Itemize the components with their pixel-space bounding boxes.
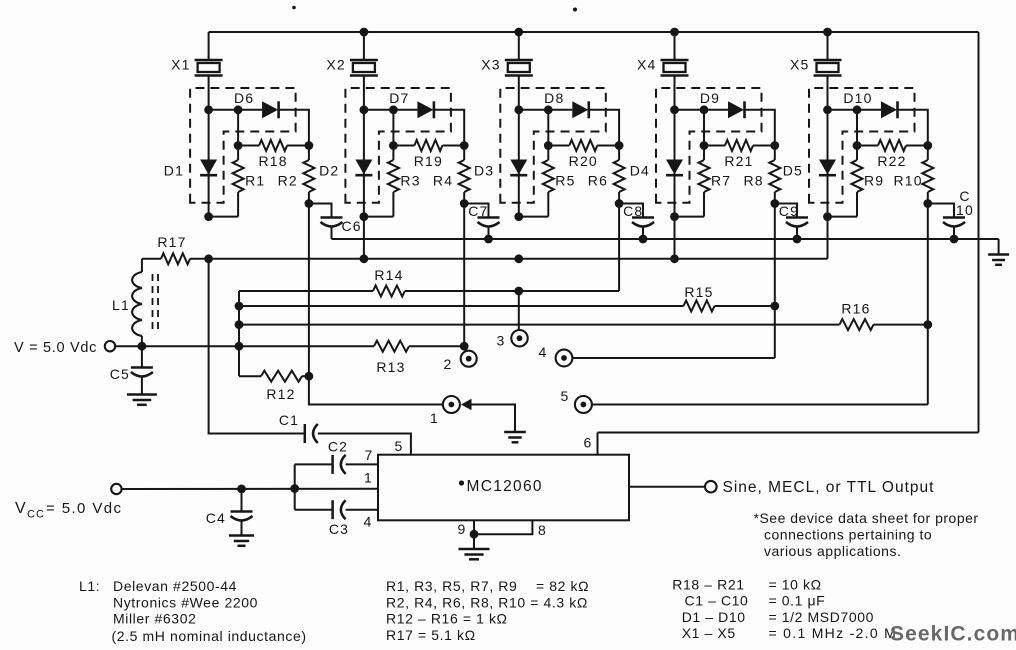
svg-text:MC12060: MC12060 [467, 478, 543, 495]
wire X4 main column [674, 76, 676, 217]
wire D10 cathode to R column [898, 110, 928, 146]
node V-col row D [235, 302, 244, 311]
wire X1 main column [208, 76, 210, 217]
node R19 right junction [460, 141, 469, 150]
svg-text:D10: D10 [843, 90, 872, 106]
wire row E left [239, 324, 840, 326]
capacitor C7 [478, 218, 500, 227]
svg-text:7: 7 [365, 447, 374, 463]
label C8 [623, 203, 643, 219]
label pin 5 [395, 438, 404, 454]
wire top supply rail [209, 31, 979, 33]
svg-text:Nytronics #Wee 2200: Nytronics #Wee 2200 [113, 595, 258, 611]
svg-text:R2, R4, R6, R8, R10 = 4.3 kΩ: R2, R4, R6, R8, R10 = 4.3 kΩ [386, 595, 588, 611]
label C5 [110, 366, 130, 382]
node top-rail junction X3 [514, 28, 523, 37]
label D1 [164, 163, 184, 179]
capacitor C9 [786, 218, 808, 227]
wire node 3 stub [518, 291, 520, 330]
diode D8 [572, 101, 589, 118]
wire R14 rail left [239, 290, 373, 292]
wire X3 top lead [518, 32, 520, 60]
resistor R19 [393, 140, 464, 151]
label 2 [444, 356, 453, 372]
svg-text:R3: R3 [400, 173, 420, 189]
svg-text:1: 1 [430, 410, 439, 426]
svg-text:5: 5 [561, 388, 570, 404]
resistor R15 [684, 301, 715, 312]
svg-text:Sine, MECL, or TTL Output: Sine, MECL, or TTL Output [723, 479, 935, 496]
ground C5 [127, 395, 157, 405]
terminal Vcc [111, 484, 121, 494]
wire C9 branch [775, 204, 797, 218]
svg-text:C5: C5 [110, 366, 130, 382]
label pin 4 [364, 514, 373, 530]
svg-text:R21: R21 [724, 153, 753, 169]
diode D3 [510, 160, 527, 176]
wire R1 column upper [237, 110, 239, 146]
resistor R3 [388, 146, 399, 217]
label pin 6 [584, 435, 593, 451]
svg-text:D9: D9 [700, 90, 720, 106]
label R1 [245, 173, 265, 189]
node R21 right junction [770, 141, 779, 150]
node R15 / R8-column junction [770, 302, 779, 311]
capacitor C8 [632, 218, 654, 227]
label MC12060 [459, 478, 543, 495]
wire node 2 stub [464, 346, 467, 352]
resistor R22 [857, 140, 928, 151]
svg-text:R6: R6 [588, 173, 608, 189]
svg-text:D3: D3 [474, 163, 494, 179]
resistor R14 [373, 286, 405, 297]
diode D10 [881, 101, 898, 118]
node rail-B X3 [514, 254, 523, 263]
ground pin 9 [459, 549, 490, 559]
wire R8 column to node-4 row [774, 306, 776, 358]
svg-text:2: 2 [444, 356, 453, 372]
terminal V supply [105, 341, 115, 351]
node terminal 2 [461, 351, 477, 367]
wire X3 main column [518, 76, 520, 217]
label pin 7 [365, 447, 374, 463]
svg-text:R16: R16 [841, 301, 870, 317]
wire X2 column lower [363, 217, 365, 259]
resistor R9 [852, 146, 863, 217]
wire X1 column to C1 [209, 259, 305, 434]
wire C2 to pin 7 [346, 463, 378, 465]
node pin9 junction [470, 530, 479, 539]
node D9 anode junction on main [670, 105, 679, 114]
svg-text:X1: X1 [171, 57, 191, 73]
svg-text:D4: D4 [630, 163, 650, 179]
wire X4 column lower [674, 217, 676, 259]
label 4 [539, 344, 548, 360]
wire R3 column upper [392, 110, 394, 146]
L1 core dashed lines [153, 274, 159, 334]
wire D6 cathode to R column [279, 110, 309, 146]
node cell 1 bottom junction [204, 212, 213, 221]
label 1 [430, 410, 439, 426]
node D9 branch junction [700, 105, 709, 114]
label Sine MECL TTL Output [723, 479, 935, 496]
wire R2 col to node 1 [309, 376, 443, 404]
wire C1 to pin 5 [318, 434, 411, 455]
crystal X1 [195, 60, 223, 76]
diode D6 [262, 101, 279, 118]
svg-text:R14: R14 [374, 267, 403, 283]
label R21 [724, 153, 753, 169]
svg-text:D8: D8 [544, 90, 564, 106]
svg-text:R18 – R21: R18 – R21 [672, 577, 744, 593]
node R8 bottom junction [770, 199, 779, 208]
wire R6 column lower [618, 204, 620, 292]
svg-text:C4: C4 [206, 510, 226, 526]
wire pin 4 lead [295, 509, 333, 511]
node R20 left junction [544, 141, 553, 150]
wire pin 9 stub [473, 520, 475, 534]
resistor R1 [233, 146, 244, 217]
node D7 branch junction [389, 105, 398, 114]
label Vcc = 5.0 Vdc [15, 500, 122, 521]
svg-text:X5: X5 [790, 57, 810, 73]
node cell 5 bottom junction [823, 212, 832, 221]
node C7 ground-rail junction [484, 235, 493, 244]
diode D9 [728, 101, 745, 118]
terminal output [705, 481, 717, 493]
label D3 [474, 163, 494, 179]
label C2 [328, 439, 348, 455]
diode D7 [417, 101, 434, 118]
svg-text:R7: R7 [711, 173, 731, 189]
svg-text:C7: C7 [468, 203, 488, 219]
svg-text:R9: R9 [864, 173, 884, 189]
node D6 branch junction [234, 105, 243, 114]
wire R14 rail right [405, 290, 619, 292]
node R12 / R2-column junction [305, 372, 314, 381]
node C4 junction [237, 485, 246, 494]
svg-text:R2: R2 [278, 173, 298, 189]
node R22 right junction [923, 141, 932, 150]
wire row D right [715, 305, 775, 307]
node D8 anode junction on main [514, 105, 523, 114]
node R10 bottom junction [923, 199, 932, 208]
svg-text:5: 5 [395, 438, 404, 454]
resistor R5 [543, 146, 554, 217]
node rail-B X4 [670, 254, 679, 263]
label 3 [497, 333, 506, 349]
svg-text:X4: X4 [637, 57, 657, 73]
label C1 [279, 412, 299, 428]
resistor R20 [548, 140, 619, 151]
svg-text:X2: X2 [326, 57, 346, 73]
ground right rail [988, 255, 1009, 265]
wire C8 to ground rail [642, 227, 644, 240]
wire V-col to R12 [239, 375, 261, 377]
label D9 [700, 90, 720, 106]
label R18 [258, 153, 287, 169]
label C3 [329, 521, 349, 537]
label R15 [684, 284, 713, 300]
node R4 bottom junction [460, 199, 469, 208]
crystal X3 [505, 60, 533, 76]
node top-rail junction X2 [360, 28, 369, 37]
node terminal 3 [511, 330, 527, 346]
wire X1 top lead [208, 32, 210, 60]
wire D9 cathode to R column [745, 110, 775, 146]
wire row F right [409, 345, 464, 347]
svg-text:8: 8 [538, 522, 547, 538]
svg-text:C9: C9 [779, 203, 799, 219]
svg-text:V: V [15, 500, 27, 517]
node D10 anode junction on main [823, 105, 832, 114]
wire R2 column lower [308, 204, 310, 377]
svg-text:R8: R8 [744, 173, 764, 189]
wire C3 to pin 4 [346, 509, 378, 511]
wire C7 to ground rail [488, 227, 490, 240]
capacitor C10 [943, 218, 965, 227]
wire R17 rail [209, 258, 828, 260]
svg-text:C2: C2 [328, 439, 348, 455]
inductor L1 [132, 272, 142, 336]
capacitor C2 [333, 455, 346, 474]
svg-text:Miller #6302: Miller #6302 [113, 611, 196, 627]
svg-text:R5: R5 [555, 173, 575, 189]
wire V terminal to junction [115, 345, 142, 347]
node D10 branch junction [853, 105, 862, 114]
note see device data sheet [754, 510, 979, 559]
node R22 left junction [853, 141, 862, 150]
node V-col row F [235, 342, 244, 351]
wire C8 branch [619, 204, 643, 218]
svg-text:3: 3 [497, 333, 506, 349]
wire R8 column lower [774, 204, 776, 307]
node terminal 4 [556, 350, 573, 367]
node cell 3 bottom junction [514, 212, 523, 221]
svg-text:R17 = 5.1 kΩ: R17 = 5.1 kΩ [386, 627, 476, 643]
svg-text:D5: D5 [783, 163, 803, 179]
svg-text:R20: R20 [569, 153, 598, 169]
crystal X2 [350, 60, 378, 76]
svg-text:D2: D2 [319, 163, 339, 179]
svg-text:L1: L1 [112, 297, 130, 313]
svg-text:R1, R3, R5, R7, R9: R1, R3, R5, R7, R9 [386, 578, 517, 594]
node R13 / R4-column junction [460, 342, 469, 351]
node R16 / R10-column junction [923, 320, 932, 329]
wire D7 branch [364, 109, 418, 111]
label R5 [555, 173, 575, 189]
label D7 [389, 90, 409, 106]
svg-text:R12: R12 [266, 386, 295, 402]
resistor R16 [840, 319, 874, 330]
op-amp U1 MC12060 box [378, 455, 629, 521]
svg-text:R13: R13 [376, 359, 405, 375]
wire X4 top lead [674, 32, 676, 60]
label R9 [864, 173, 884, 189]
label R19 [414, 153, 443, 169]
wire R5 column upper [547, 110, 549, 146]
wire D7 cathode to R column [434, 110, 464, 146]
legend L1 column [79, 578, 307, 644]
wire pin9 to pin8 [474, 520, 532, 534]
svg-text:SeekIC.com: SeekIC.com [890, 623, 1016, 646]
label X3 [481, 57, 501, 73]
label X1 [171, 57, 191, 73]
label R17 [157, 234, 186, 250]
label D6 [234, 90, 254, 106]
svg-text:= 0.1 MHz -2.0 M: = 0.1 MHz -2.0 M [769, 625, 898, 641]
ground node 1 [504, 432, 526, 442]
label C9 [779, 203, 799, 219]
label X4 [637, 57, 657, 73]
label C7 [468, 203, 488, 219]
wire R5 bottom to main [519, 216, 549, 218]
label R4 [433, 173, 453, 189]
label D8 [544, 90, 564, 106]
label pin 9 [458, 521, 467, 537]
svg-text:C1: C1 [279, 412, 299, 428]
svg-text:R19: R19 [414, 153, 443, 169]
resistor R8 [769, 146, 780, 204]
label C4 [206, 510, 226, 526]
diode D1 [200, 160, 217, 176]
svg-text:CC: CC [27, 509, 45, 521]
svg-text:= 5.0 Vdc: = 5.0 Vdc [46, 500, 122, 517]
node R20 right junction [615, 141, 624, 150]
label D4 [630, 163, 650, 179]
resistor R2 [303, 146, 314, 204]
node R18 left junction [234, 141, 243, 150]
wire D6 branch [209, 109, 263, 111]
resistor R6 [614, 146, 625, 204]
wire R9 bottom to main [828, 216, 858, 218]
wire C6 to ground rail [331, 227, 333, 240]
label R6 [588, 173, 608, 189]
wire ground rail [332, 238, 999, 240]
crystal X5 [814, 60, 842, 76]
svg-text:C8: C8 [623, 203, 643, 219]
node D8 branch junction [544, 105, 553, 114]
resistor R17 [142, 253, 209, 264]
node Vcc / tie column junction [290, 484, 299, 493]
label R12 [266, 386, 295, 402]
wire pin 7 lead [295, 463, 333, 465]
resistor R18 [238, 140, 309, 151]
svg-text:*See device data sheet for pro: *See device data sheet for proper [754, 510, 979, 526]
svg-text:= 0.1 μF: = 0.1 μF [769, 593, 826, 609]
node cell 2 bottom junction [360, 212, 369, 221]
diode D2 [355, 160, 372, 176]
svg-text:various applications.: various applications. [764, 543, 901, 559]
wire row F left [239, 345, 374, 347]
resistor R7 [699, 146, 710, 217]
legend resistor values [386, 578, 589, 643]
wire C6 branch [309, 204, 332, 218]
node R18 right junction [305, 141, 314, 150]
svg-text:4: 4 [539, 344, 548, 360]
dashed gate box cell 1 [190, 88, 296, 203]
node C10 ground-rail junction [950, 235, 959, 244]
node rail-B X2 [360, 254, 369, 263]
svg-text:= 1/2 MSD7000: = 1/2 MSD7000 [769, 609, 874, 625]
dashed gate box cell 5 [809, 88, 915, 203]
capacitor C4 [231, 489, 253, 521]
svg-text:X1 – X5: X1 – X5 [682, 625, 736, 641]
svg-text:L1:: L1: [79, 578, 100, 594]
label pin 1 [364, 470, 373, 486]
label R20 [569, 153, 598, 169]
node D6 anode junction on main [204, 105, 213, 114]
svg-text:C6: C6 [342, 218, 362, 234]
node top-rail junction X5 [823, 28, 832, 37]
svg-text:D6: D6 [234, 90, 254, 106]
node R19 left junction [389, 141, 398, 150]
resistor R4 [459, 146, 470, 204]
svg-text:Delevan #2500-44: Delevan #2500-44 [113, 578, 237, 594]
svg-text:R1: R1 [245, 173, 265, 189]
wire X5 top lead [827, 32, 829, 60]
svg-text:D7: D7 [389, 90, 409, 106]
label R3 [400, 173, 420, 189]
wire D8 cathode to R column [589, 110, 619, 146]
svg-text:V = 5.0 Vdc: V = 5.0 Vdc [14, 340, 97, 356]
wire D10 branch [828, 109, 882, 111]
wire C9 to ground rail [796, 227, 798, 240]
label R10 [894, 173, 923, 189]
wire 6 to right border [598, 432, 979, 434]
svg-text:9: 9 [458, 521, 467, 537]
wire R10 column to node-5 row [927, 325, 929, 405]
wire R10 column lower [927, 204, 929, 325]
label R13 [376, 359, 405, 375]
svg-text:4: 4 [364, 514, 373, 530]
wire pin 6 stub [597, 433, 599, 455]
wire C10 branch [928, 204, 954, 218]
node R2 bottom junction [305, 199, 314, 208]
label L1 [112, 297, 130, 313]
resistor R12 [261, 371, 302, 382]
wire R17 to L1 [141, 259, 143, 272]
wire X2 main column [363, 76, 365, 217]
diode D5 [819, 160, 836, 176]
svg-text:R12 – R16 = 1 kΩ: R12 – R16 = 1 kΩ [386, 611, 508, 627]
wire D8 branch [519, 109, 573, 111]
label pin 8 [538, 522, 547, 538]
wire X5 column to rail [827, 217, 829, 259]
dashed gate box cell 4 [656, 88, 762, 203]
resistor R10 [922, 146, 933, 204]
wire R4 column lower [463, 204, 465, 347]
label C6 [342, 218, 362, 234]
capacitor C3 [333, 500, 346, 519]
node R6 bottom junction [615, 199, 624, 208]
node C8 ground-rail junction [639, 235, 648, 244]
svg-text:R4: R4 [433, 173, 453, 189]
wire R9 column upper [856, 110, 858, 146]
label 5 [561, 388, 570, 404]
wire node 5 to R10 column [592, 404, 928, 406]
dashed gate box cell 3 [500, 88, 606, 203]
wire R7 bottom to main [675, 216, 705, 218]
wire row E right [874, 324, 928, 326]
node R21 left junction [700, 141, 709, 150]
node V-col row E [235, 320, 244, 329]
label D2 [319, 163, 339, 179]
svg-text:X3: X3 [481, 57, 501, 73]
diode D4 [666, 160, 683, 176]
wire C7 branch [464, 204, 488, 218]
wire X2 top lead [363, 32, 365, 60]
